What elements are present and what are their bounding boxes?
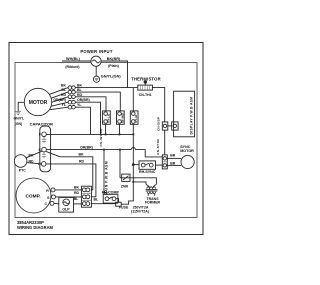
svg-text:BK(BR): BK(BR) <box>107 57 121 61</box>
compressor COMP <box>16 178 51 213</box>
wire bus to transformer <box>133 182 146 184</box>
connector CN-WORK pins <box>68 86 75 109</box>
wire BK to right bus <box>75 87 133 89</box>
wire power left (WH) <box>62 60 91 62</box>
wire BR to sync motor <box>167 157 181 159</box>
svg-text:DISPLAY P.W.B ASM: DISPLAY P.W.B ASM <box>190 97 194 135</box>
wire BK from C to compressor connector <box>46 151 93 190</box>
sync motor <box>181 155 194 168</box>
svg-text:RD: RD <box>74 191 80 195</box>
wire power right (BK) <box>101 61 127 88</box>
svg-text:POWER INPUT: POWER INPUT <box>80 49 112 54</box>
svg-text:BK: BK <box>61 84 67 88</box>
connector CN-COMP 3 pin <box>81 186 91 207</box>
svg-text:OR(BR): OR(BR) <box>53 98 66 102</box>
wire OLP to connector <box>74 203 82 205</box>
svg-text:RD: RD <box>79 159 85 163</box>
svg-text:FORMER: FORMER <box>145 201 161 205</box>
common bus to capacitor F <box>46 133 133 135</box>
svg-text:BR: BR <box>170 161 176 165</box>
svg-text:(GN): (GN) <box>15 122 22 126</box>
wire thermistor to CN-DISP <box>133 88 164 122</box>
wire YL down to capacitor bus <box>75 107 90 134</box>
svg-text:RD: RD <box>77 93 83 97</box>
svg-text:RH-SYNC: RH-SYNC <box>139 170 156 174</box>
svg-text:FUSE: FUSE <box>119 206 129 210</box>
svg-text:CN-SYNC: CN-SYNC <box>156 138 160 155</box>
relay RY-MID <box>117 111 125 124</box>
relay RY-HI <box>130 111 138 124</box>
right bus (BK line) <box>121 88 133 205</box>
svg-text:OR(BR): OR(BR) <box>77 98 90 102</box>
svg-text:RY-HI: RY-HI <box>134 115 138 123</box>
svg-text:RY-MID: RY-MID <box>120 112 124 123</box>
ground at power input <box>95 66 97 76</box>
svg-text:CAPACITOR: CAPACITOR <box>30 122 54 127</box>
svg-text:WIRING DIAGRAM: WIRING DIAGRAM <box>17 225 54 230</box>
wire RH-SYNC to CN-SYNC <box>156 164 163 166</box>
PTC <box>14 155 27 168</box>
wire R to connector <box>55 189 81 191</box>
wire connector cell1 stub <box>91 189 92 191</box>
wire S to connector <box>56 196 82 198</box>
svg-text:GN/YL: GN/YL <box>13 117 25 121</box>
inner diagram frame <box>15 63 197 218</box>
junction dots on right bus <box>132 133 134 135</box>
svg-text:(Plain): (Plain) <box>108 64 119 68</box>
outer border frame <box>9 43 203 235</box>
svg-text:PTC: PTC <box>19 169 26 173</box>
wire connector cell2 stub <box>91 196 96 198</box>
svg-text:ZNR: ZNR <box>121 185 129 189</box>
relay bottom wires to common bus <box>106 124 120 134</box>
connector CN-TH1 <box>138 85 153 90</box>
svg-text:(115V/T2A): (115V/T2A) <box>131 210 149 214</box>
OLP <box>59 197 74 212</box>
svg-text:(Ribbed): (Ribbed) <box>65 65 79 69</box>
svg-text:OR(BR): OR(BR) <box>80 145 93 149</box>
svg-text:COMP.: COMP. <box>25 193 40 199</box>
relay RH-SYNC <box>133 164 139 166</box>
wire PTC to C <box>26 151 42 158</box>
svg-text:RD: RD <box>28 160 34 164</box>
wire connector to fuse <box>91 203 115 205</box>
wire CN-DISP to CN-SYNC <box>164 130 166 155</box>
svg-text:CN-TH1: CN-TH1 <box>139 93 152 97</box>
relay RY-LO <box>103 111 111 124</box>
svg-text:GN/YL(GN): GN/YL(GN) <box>101 75 122 79</box>
wire BR to sync motor <box>167 164 181 166</box>
display pwb assembly <box>174 91 195 137</box>
wire C to OLP <box>54 202 59 205</box>
AC power source <box>91 56 101 66</box>
varistor ZNR <box>120 150 156 185</box>
svg-text:BK: BK <box>78 153 84 157</box>
ground at motor <box>18 102 24 111</box>
svg-text:CN-WORK: CN-WORK <box>99 128 103 147</box>
svg-text:MOTOR: MOTOR <box>180 149 194 153</box>
svg-text:BK: BK <box>74 185 80 189</box>
wire PTC / H / RD to compressor connector <box>27 163 96 197</box>
svg-text:BR: BR <box>170 154 176 158</box>
svg-text:MOTOR: MOTOR <box>29 100 48 106</box>
wire capacitor C hot bus with hop <box>46 148 162 157</box>
svg-text:RD: RD <box>61 93 67 97</box>
svg-text:WH(BL): WH(BL) <box>66 57 81 61</box>
wire BL to relay RY-MID <box>75 92 120 111</box>
svg-text:BK: BK <box>77 84 83 88</box>
wire RD to relay RY-LO <box>75 97 106 111</box>
svg-text:RY-LO: RY-LO <box>106 113 110 123</box>
fuse F1 <box>116 202 122 206</box>
svg-text:CN-DISP: CN-DISP <box>157 117 161 131</box>
wire OR(BR) down to common bus <box>75 102 100 134</box>
transformer T1 <box>146 184 158 196</box>
motor M1 <box>24 88 51 115</box>
svg-text:OLP: OLP <box>62 208 70 212</box>
motor lead wires <box>50 88 69 110</box>
wire hot bus to RH-COMP <box>103 150 105 195</box>
wire RH-COMP to fuse <box>116 199 119 203</box>
